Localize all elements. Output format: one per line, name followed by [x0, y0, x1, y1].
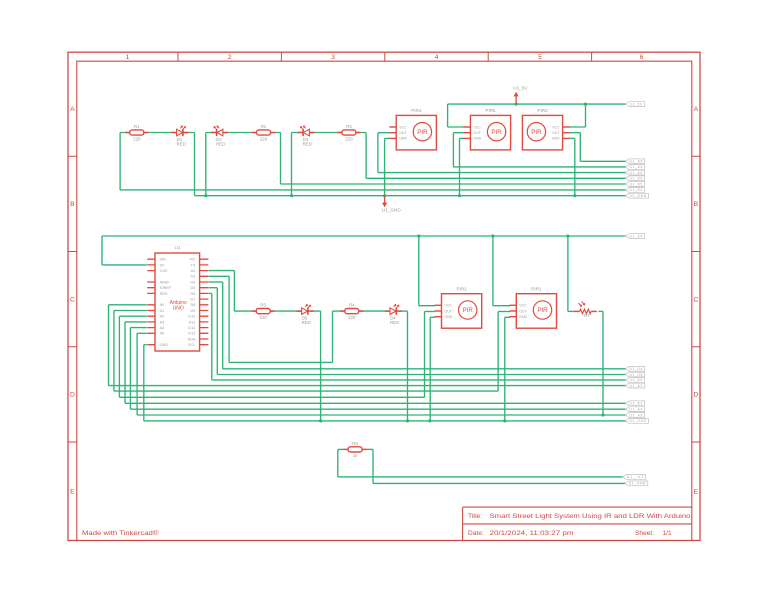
svg-text:PIR4: PIR4 [411, 108, 422, 113]
wire bus A4 [130, 408, 625, 410]
wire PIR2 GND run [430, 316, 435, 318]
net tag U1_5V [626, 102, 645, 107]
wire bus R6 left net [338, 476, 623, 478]
svg-text:VCC: VCC [473, 125, 481, 129]
wire U1 D5 pin run [209, 287, 218, 289]
PIR sensor PIR5 [464, 108, 511, 150]
LED D3 [297, 126, 314, 147]
wire PIR1 GND run [505, 316, 510, 318]
svg-text:PIR: PIR [537, 307, 548, 314]
svg-text:VCC: VCC [399, 125, 407, 129]
svg-text:A4: A4 [160, 326, 165, 330]
wire R7 bottom vertical [602, 311, 604, 415]
wire PIR3 OUT run [569, 132, 580, 134]
svg-text:SCL: SCL [188, 343, 195, 347]
wire bus R2 net [281, 183, 626, 185]
svg-text:D8: D8 [191, 303, 196, 307]
wire U1 A3 pin run [125, 321, 147, 323]
net tag U1_A5 [626, 413, 645, 418]
svg-text:PIR3: PIR3 [537, 108, 548, 113]
net tag U1_D6 [626, 176, 645, 181]
svg-text:D5: D5 [191, 286, 196, 290]
wire PIR4 OUT vertical [377, 133, 379, 173]
junction D4 cathode on GND bus [406, 419, 409, 422]
junction D2 on GND bus [204, 194, 207, 197]
wire loop2 right vertical [280, 133, 282, 185]
svg-text:GND: GND [473, 137, 481, 141]
wire D3 net riser [332, 311, 334, 362]
svg-text:UNO: UNO [173, 305, 184, 311]
wire U1 D4 pin run [209, 281, 223, 283]
svg-text:GND: GND [552, 137, 560, 141]
svg-text:D: D [70, 392, 75, 399]
resistor R3 [337, 124, 360, 141]
svg-text:OUT: OUT [552, 131, 560, 135]
wire U1 A4 pin run [130, 327, 146, 329]
svg-text:Title:: Title: [468, 513, 482, 520]
svg-text:220: 220 [260, 136, 268, 141]
svg-text:5: 5 [538, 54, 542, 61]
wire bus GND [144, 420, 626, 422]
wire R6 left run [338, 448, 344, 450]
junction PIR2 VCC on rail [417, 234, 420, 237]
column ticks top [178, 52, 592, 61]
svg-text:U1_A5: U1_A5 [630, 171, 643, 175]
svg-text:IOREF: IOREF [160, 286, 172, 290]
junction 5V arrow on rail [515, 103, 518, 106]
net tag U1_D6 [626, 378, 645, 383]
svg-text:PIR5: PIR5 [485, 108, 496, 113]
wire D3 net vertical [228, 276, 230, 362]
svg-text:6: 6 [640, 54, 644, 61]
svg-text:VIN: VIN [160, 258, 167, 262]
svg-text:U1_GND: U1_GND [630, 419, 647, 423]
svg-text:U1: U1 [175, 245, 181, 250]
svg-text:220: 220 [345, 136, 353, 141]
svg-text:D3: D3 [191, 275, 196, 279]
resistor R2 [252, 124, 275, 141]
svg-text:B: B [694, 201, 699, 208]
junction D5 cathode on GND bus [319, 419, 322, 422]
wire PIR5 VCC drop [447, 104, 449, 127]
wire bus PIR3 OUT [580, 160, 625, 162]
svg-text:RED: RED [216, 142, 225, 147]
wire bus A1 [114, 390, 498, 392]
svg-text:A: A [70, 106, 75, 113]
svg-text:RED: RED [390, 320, 399, 325]
svg-text:5V: 5V [160, 263, 165, 267]
wire PIR2 VCC drop [418, 236, 420, 306]
svg-text:Made with Tinkercad®: Made with Tinkercad® [82, 529, 159, 537]
wire D2 cathode vertical [205, 133, 207, 196]
svg-text:TX: TX [191, 263, 196, 267]
wire PIR2 GND vertical [429, 317, 431, 421]
wire R5-D5 run [234, 310, 320, 312]
wire U1 A2 pin run [119, 315, 146, 317]
svg-text:C: C [70, 296, 75, 303]
svg-text:RES: RES [160, 292, 168, 296]
wire PIR3 VCC run [569, 126, 586, 128]
svg-text:U1_GND: U1_GND [629, 482, 646, 486]
wire PIR3 VCC vertical [585, 104, 587, 127]
svg-text:R4: R4 [349, 303, 355, 308]
row letters [70, 106, 699, 496]
net tag U1_A1 [623, 475, 646, 480]
wire U1 GND pin run [144, 344, 147, 346]
junction PIR3 GND on GND bus [573, 194, 576, 197]
wire loop3 right vertical [365, 133, 367, 179]
svg-text:A2: A2 [160, 315, 165, 319]
svg-text:D11: D11 [189, 320, 196, 324]
svg-text:R7: R7 [584, 313, 590, 318]
title block [463, 507, 692, 540]
svg-text:D10: D10 [188, 315, 195, 319]
wire D3 net horizontal [229, 361, 332, 363]
outer border frame [68, 52, 700, 540]
wire loop1 top (R1-D1 run) [120, 132, 194, 134]
svg-text:20/1/2024, 11:03:27 pm: 20/1/2024, 11:03:27 pm [490, 530, 575, 537]
svg-text:OUT: OUT [473, 131, 481, 135]
wire PIR5 VCC run [448, 126, 465, 128]
wire R7 left run [568, 310, 574, 312]
net tag U1_A3 [626, 401, 645, 406]
svg-text:R2: R2 [261, 124, 267, 129]
wire U1 D2 pin run [209, 270, 235, 272]
svg-text:Smart Street Light System Usin: Smart Street Light System Using IR and L… [490, 513, 691, 520]
junction PIR1 VCC on rail [491, 234, 494, 237]
net tag U1_GND [626, 419, 649, 424]
svg-text:D7: D7 [191, 298, 196, 302]
resistor R5 [252, 303, 275, 320]
PIR sensor PIR4 [389, 108, 436, 150]
LED D5 [296, 305, 313, 326]
svg-text:U1_A3: U1_A3 [630, 402, 643, 406]
junction PIR3 VCC on rail [584, 103, 587, 106]
svg-text:A5: A5 [160, 332, 165, 336]
wire D1 cathode vertical [194, 133, 196, 196]
wire PIR1 OUT run [498, 311, 510, 313]
svg-text:D12: D12 [188, 326, 195, 330]
wire R4-D4 run [333, 310, 408, 312]
wire PIR3 GND run [569, 137, 575, 139]
svg-text:U1_A5: U1_A5 [630, 413, 643, 417]
wire loop2 top (D2-R2 run) [206, 132, 281, 134]
wire loop1 left vertical [119, 133, 121, 190]
wire A3 net vertical [124, 322, 126, 403]
wire bus R3 net [366, 177, 625, 179]
net tag U1_GND [625, 481, 648, 486]
svg-text:GND: GND [445, 315, 453, 319]
svg-text:U1_D5: U1_D5 [630, 182, 643, 186]
wire PIR5 GND run [460, 137, 465, 139]
wire bus A0 [109, 385, 626, 387]
wire U1 5V pin run [102, 264, 147, 266]
wire U1 A0 pin run [109, 304, 147, 306]
wire U1 D3 pin run [209, 275, 229, 277]
wire A5 net vertical [136, 333, 138, 415]
ground symbol U1_GND arrow [382, 196, 401, 213]
junction D3 on GND bus [290, 194, 293, 197]
svg-text:OUT: OUT [519, 309, 527, 313]
LED D2 [211, 126, 228, 147]
PIR sensor PIR1 [509, 287, 556, 329]
svg-text:U1_D4: U1_D4 [630, 367, 643, 371]
wire PIR1 OUT vertical [497, 312, 499, 392]
svg-text:VCC: VCC [445, 304, 453, 308]
wire U1 D6 pin run [209, 292, 212, 294]
wire PIR4 GND vertical [384, 138, 386, 195]
svg-text:U1_D4: U1_D4 [630, 188, 643, 192]
wire 5V rail middle [102, 235, 626, 237]
svg-text:AREF: AREF [160, 280, 171, 284]
wire R7 top drop [567, 236, 569, 311]
LED D1 [171, 126, 188, 147]
svg-text:R6: R6 [352, 441, 358, 446]
wire PIR5 OUT run [453, 132, 464, 134]
svg-text:U1_A4: U1_A4 [630, 408, 643, 412]
wire D5 net vertical [216, 288, 218, 375]
Arduino UNO U1 [147, 245, 208, 351]
svg-text:PIR2: PIR2 [456, 287, 467, 292]
net tag U1_D4 [626, 188, 645, 193]
wire bus A3 [125, 402, 626, 404]
wire PIR1 VCC run [493, 305, 510, 307]
wire D2 net vertical [233, 271, 235, 312]
svg-text:A0: A0 [160, 303, 165, 307]
junction R7 on A5 bus [601, 413, 604, 416]
PIR sensor PIR3 [522, 108, 569, 150]
svg-text:220: 220 [348, 315, 356, 320]
wire 5V rail top [448, 103, 626, 105]
wire bus R6 right net [373, 482, 625, 484]
svg-text:Sheet:: Sheet: [635, 530, 654, 537]
wire bus U1_D4 [223, 368, 626, 370]
wire GND net vertical [143, 345, 145, 421]
wire bus PIR4 OUT [378, 172, 626, 174]
wire R6 right vertical [372, 449, 374, 483]
junction R7 on rail [566, 234, 569, 237]
column numbers [126, 54, 644, 61]
net tag U1_D5 [626, 372, 645, 377]
wire PIR4 GND stub run [385, 137, 390, 139]
svg-text:U1_A4: U1_A4 [630, 165, 643, 169]
svg-text:RED: RED [177, 142, 186, 147]
svg-text:R5: R5 [260, 303, 266, 308]
svg-text:Date:: Date: [468, 530, 484, 537]
wire A4 net vertical [129, 328, 131, 410]
wire PIR5 GND vertical [459, 138, 461, 195]
net tag U1_A3 [626, 159, 645, 164]
wire bus PIR5 OUT [453, 166, 625, 168]
wire PIR5 OUT vertical [452, 133, 454, 167]
svg-text:U1_D6: U1_D6 [630, 177, 643, 181]
wire U1 A5 pin run [137, 332, 147, 334]
wire U1 5V riser [101, 236, 103, 265]
net tag U1_A5 [626, 170, 645, 175]
svg-text:R1: R1 [134, 124, 140, 129]
wire bus U1_D5 [217, 374, 625, 376]
svg-text:220: 220 [260, 315, 268, 320]
net tag U1_A4 [626, 407, 645, 412]
wire D6 net vertical [211, 293, 213, 380]
wire R6 left vertical [337, 449, 339, 477]
svg-text:OUT: OUT [445, 309, 453, 313]
svg-text:VCC: VCC [519, 304, 527, 308]
svg-text:U1_5V: U1_5V [630, 234, 644, 238]
svg-text:OUT: OUT [399, 131, 407, 135]
net tag U1_GND [626, 193, 649, 198]
svg-text:220: 220 [133, 136, 141, 141]
wire bus GND top [195, 195, 626, 197]
svg-text:3.3V: 3.3V [160, 269, 168, 273]
svg-text:E: E [70, 489, 75, 496]
wire U1 A1 pin run [114, 310, 147, 312]
wire loop3 top (D3-R3 run) [292, 132, 367, 134]
svg-text:1k: 1k [353, 453, 358, 458]
svg-text:D9: D9 [191, 309, 196, 313]
svg-text:U1_A3: U1_A3 [630, 160, 643, 164]
wire D3 cathode vertical [291, 133, 293, 196]
svg-text:R3: R3 [346, 124, 352, 129]
wire PIR2 OUT vertical [424, 312, 426, 398]
wire A1 net vertical [113, 311, 115, 392]
wire D5 cathode vertical [320, 311, 322, 421]
net tag U1_5V [626, 234, 645, 239]
svg-text:RED: RED [302, 320, 311, 325]
svg-text:PIR: PIR [463, 307, 474, 314]
LED D4 [385, 305, 402, 326]
wire PIR3 OUT vertical [579, 133, 581, 162]
wire bus U1_D6 [212, 379, 626, 381]
svg-text:U1_D6: U1_D6 [630, 378, 643, 382]
net tag U1_A0 [626, 383, 645, 388]
resistor R4 [340, 303, 363, 320]
svg-text:A: A [694, 106, 699, 113]
svg-text:PIR: PIR [417, 129, 428, 136]
svg-text:3: 3 [331, 54, 335, 61]
svg-text:PIR1: PIR1 [531, 287, 542, 292]
wire bus A5 [137, 414, 625, 416]
svg-text:GND: GND [519, 315, 527, 319]
junction PIR2 GND on GND bus [428, 419, 431, 422]
svg-text:E: E [694, 489, 699, 496]
svg-text:1/1: 1/1 [663, 530, 672, 537]
net tag U1_D4 [626, 366, 645, 371]
svg-text:U1_5V: U1_5V [630, 102, 644, 106]
svg-text:VCC: VCC [552, 125, 560, 129]
net tag U1_D5 [626, 182, 645, 187]
junction PIR5 GND on GND bus [458, 194, 461, 197]
svg-text:SDA: SDA [188, 337, 196, 341]
wire PIR1 GND vertical [504, 317, 506, 421]
svg-text:A3: A3 [160, 320, 165, 324]
svg-text:B: B [70, 201, 75, 208]
svg-text:U1_5V: U1_5V [513, 85, 528, 90]
svg-text:4: 4 [435, 54, 439, 61]
svg-text:C: C [693, 296, 698, 303]
svg-text:U1_GND: U1_GND [630, 194, 647, 198]
svg-text:A1: A1 [160, 309, 165, 313]
wire D4 cathode vertical [407, 311, 409, 421]
wire R6 right run [366, 448, 373, 450]
wire PIR4 OUT stub run [378, 132, 390, 134]
svg-text:D6: D6 [191, 292, 196, 296]
wire D4 net vertical [222, 282, 224, 369]
svg-text:D13: D13 [188, 332, 195, 336]
svg-text:D4: D4 [191, 280, 196, 284]
svg-text:PIR: PIR [531, 129, 542, 136]
wire R7 right run [598, 310, 603, 312]
PIR sensor PIR2 [435, 287, 482, 329]
svg-text:U1_A0: U1_A0 [630, 384, 643, 388]
svg-text:RED: RED [303, 142, 312, 147]
resistor R1 [125, 124, 148, 141]
wire bus R1 net [120, 189, 625, 191]
svg-text:1: 1 [126, 54, 130, 61]
junction PIR4 GND on GND bus [383, 194, 386, 197]
wire A0 net vertical [108, 305, 110, 386]
svg-text:U1_D5: U1_D5 [630, 373, 643, 377]
wire PIR3 GND vertical [574, 138, 576, 195]
wire PIR2 OUT run [425, 311, 436, 313]
svg-text:D: D [693, 392, 698, 399]
svg-text:RX: RX [190, 258, 196, 262]
svg-text:PIR: PIR [491, 129, 502, 136]
svg-text:2: 2 [228, 54, 232, 61]
wire PIR1 VCC drop [492, 236, 494, 306]
row ticks left/right [68, 156, 700, 442]
svg-text:D2: D2 [191, 269, 196, 273]
inner border frame [77, 61, 692, 540]
wire bus A2 [119, 396, 424, 398]
resistor R6 [344, 441, 367, 458]
svg-text:GND: GND [399, 137, 407, 141]
net tag U1_A4 [626, 165, 645, 170]
wire A2 net vertical [118, 316, 120, 397]
junction PIR1 GND on GND bus [503, 419, 506, 422]
photoresistor R7 (LDR) [574, 302, 597, 319]
svg-text:GND: GND [160, 343, 169, 347]
wire PIR2 VCC run [419, 305, 435, 307]
power symbol U1_5V arrow [513, 85, 528, 104]
svg-text:U1_GND: U1_GND [382, 208, 401, 213]
